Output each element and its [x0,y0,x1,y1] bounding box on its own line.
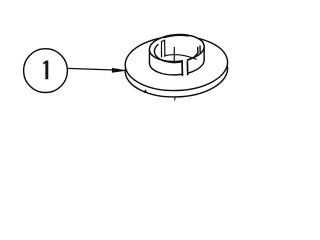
key tab [162,40,165,57]
tick on flange bottom left [144,90,146,92]
notch gap white [198,46,200,54]
balloon circle [24,49,68,93]
slot left edge [181,63,183,76]
slot gap white [183,58,187,75]
bore floor arc [164,55,197,60]
leader line [64,68,115,70]
bore center line [173,47,175,63]
boss base front arc [149,60,204,75]
leader arrowhead [112,68,128,73]
flange top face ellipse [124,35,228,93]
boss wall right edge [203,46,205,60]
notch left edge [197,47,199,53]
notch right edge [199,46,201,53]
slot right edge [186,62,188,75]
boss rim outer ellipse [149,33,206,64]
boss silhouette fill [149,35,204,75]
flange bottom ellipse (thickness) [124,41,228,99]
tick on flange bottom center [174,97,176,100]
boss wall left edge [148,50,150,64]
rim top inner thickening [164,35,189,37]
bore inner arc [154,44,198,62]
balloon text 1 [43,61,48,80]
